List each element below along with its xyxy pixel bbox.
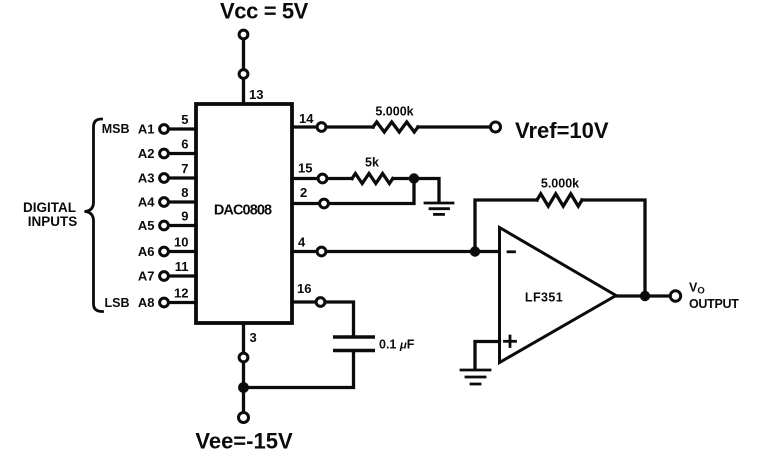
wire pin 4 to node A [327, 250, 475, 253]
svg-text:DAC0808: DAC0808 [214, 203, 272, 219]
wire A1 to pin 5 [170, 127, 197, 130]
svg-text:12: 12 [174, 286, 188, 301]
wire pin 15 [292, 177, 318, 180]
svg-text:A4: A4 [138, 195, 155, 210]
digital inputs brace [85, 119, 103, 312]
node B junction [409, 173, 419, 183]
wire pin 2 [292, 202, 319, 205]
svg-text:10: 10 [174, 235, 188, 250]
wire capacitor C1 to Vee rail [244, 352, 354, 388]
svg-text:9: 9 [181, 209, 188, 224]
svg-text:7: 7 [181, 161, 188, 176]
svg-text:3: 3 [250, 330, 257, 345]
node C junction [238, 382, 249, 393]
input A2 circle [160, 149, 169, 158]
wire pin 3 [242, 323, 245, 353]
wire node to pin 13 [242, 79, 245, 104]
svg-text:4: 4 [298, 235, 306, 250]
svg-text:Vref=10V: Vref=10V [515, 118, 609, 143]
wire to resistor R2 [328, 177, 352, 180]
pin 3 circle [239, 353, 248, 362]
wire resistor R1 to Vref terminal [418, 125, 490, 128]
svg-text:0.1 μF: 0.1 μF [379, 338, 415, 352]
wire node B to ground stem [414, 179, 439, 202]
svg-text:5.000k: 5.000k [375, 105, 413, 119]
svg-text:5: 5 [181, 112, 188, 127]
op-amp U2 LF351 [500, 228, 617, 363]
pin 14 circle [317, 123, 326, 132]
pin 4 circle [317, 247, 326, 256]
ground G1 [425, 203, 453, 214]
wire pin 14 [292, 125, 317, 128]
terminal Vref [491, 122, 501, 132]
input A1 circle [160, 125, 169, 134]
resistor R1 5.000k [373, 122, 418, 132]
wire non-inverting input to ground G2 [475, 342, 500, 369]
svg-text:A7: A7 [138, 269, 155, 284]
capacitor C1 0.1 uF [333, 337, 375, 351]
pin 2 circle [320, 199, 329, 208]
svg-text:LSB: LSB [105, 296, 130, 310]
input A8 circle [160, 298, 169, 307]
wire resistor R3 to output node [582, 200, 645, 296]
wire Vcc to node [242, 40, 245, 70]
resistor R2 5k [352, 174, 393, 184]
svg-text:8: 8 [181, 185, 188, 200]
node D junction [640, 291, 650, 301]
svg-text:MSB: MSB [102, 122, 130, 136]
svg-text:5k: 5k [365, 156, 379, 170]
svg-text:A2: A2 [138, 146, 155, 161]
input A7 circle [160, 272, 169, 281]
op-amp minus sign [508, 250, 515, 253]
svg-text:15: 15 [298, 161, 312, 176]
svg-text:11: 11 [175, 259, 189, 274]
wire A2 to pin 6 [170, 152, 197, 155]
wire pin 2 up to node B [330, 179, 415, 204]
svg-text:DIGITAL: DIGITAL [23, 200, 76, 215]
wire A3 to pin 7 [170, 176, 197, 179]
svg-text:5.000k: 5.000k [541, 177, 579, 191]
wire pin 3 circle to node C [242, 363, 245, 388]
wire node C to Vee terminal [242, 388, 245, 413]
IC U1 DAC0808 [196, 104, 292, 323]
wire A5 to pin 9 [170, 224, 197, 227]
wire A8 to pin 12 [170, 301, 197, 304]
input A6 circle [160, 247, 169, 256]
svg-text:VO: VO [689, 281, 705, 297]
input A5 circle [160, 221, 169, 230]
svg-text:2: 2 [300, 185, 307, 200]
svg-text:INPUTS: INPUTS [28, 214, 78, 229]
svg-text:13: 13 [249, 87, 263, 102]
wire node A to op-amp inverting input [475, 250, 499, 253]
wire pin 16 to capacitor C1 [326, 302, 354, 336]
svg-text:OUTPUT: OUTPUT [689, 297, 739, 311]
wire feedback from node A up [475, 200, 537, 252]
wire pin 16 [292, 300, 316, 303]
terminal V0 output [670, 291, 680, 301]
svg-text:A8: A8 [138, 295, 155, 310]
wire resistor R2 to node B [393, 177, 414, 180]
wire pin 4 [292, 250, 317, 253]
svg-text:A5: A5 [138, 218, 155, 233]
wire node D to output terminal [645, 294, 670, 297]
svg-text:LF351: LF351 [525, 291, 563, 305]
wire op-amp output to node D [616, 294, 645, 297]
input A4 circle [160, 198, 169, 207]
terminal Vcc [239, 30, 248, 39]
wire A4 to pin 8 [170, 200, 197, 203]
svg-text:A6: A6 [138, 244, 155, 259]
pin 15 circle [318, 174, 327, 183]
svg-text:Vee=-15V: Vee=-15V [195, 429, 293, 454]
wire A7 to pin 11 [170, 274, 197, 277]
node on Vcc wire [239, 70, 248, 79]
op-amp plus sign [505, 336, 516, 347]
svg-text:16: 16 [297, 281, 311, 296]
wire to resistor R1 [327, 125, 373, 128]
node A junction [470, 246, 480, 256]
terminal Vee [239, 413, 249, 423]
svg-text:A3: A3 [138, 171, 155, 186]
resistor R3 5.000k feedback [537, 194, 582, 206]
ground G2 [461, 370, 490, 384]
svg-text:A1: A1 [138, 122, 155, 137]
wire A6 to pin 10 [170, 250, 197, 253]
svg-text:Vcc = 5V: Vcc = 5V [220, 0, 309, 24]
svg-text:14: 14 [299, 111, 314, 126]
input A3 circle [160, 174, 169, 183]
svg-text:6: 6 [181, 137, 188, 152]
pin 16 circle [316, 298, 325, 307]
